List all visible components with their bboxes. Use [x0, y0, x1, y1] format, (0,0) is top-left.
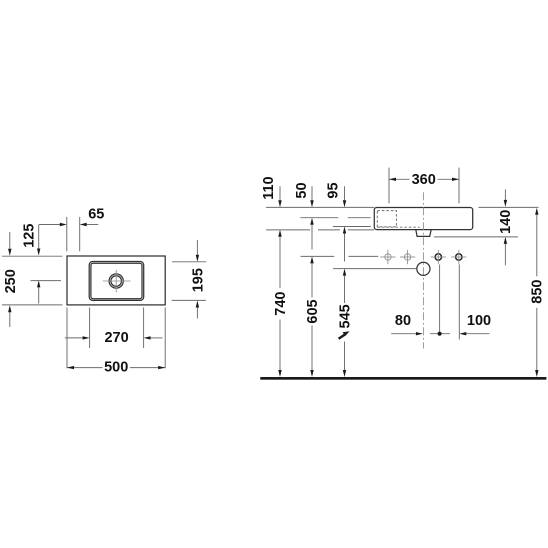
95 level line [333, 226, 371, 228]
line from fixing hole to 80/100 dim (right) [458, 265, 460, 340]
front drain outlet trapezoid [416, 230, 431, 237]
dim 500 (plan bottom) [67, 308, 165, 376]
dim 95 [326, 182, 347, 207]
50 level line [300, 217, 370, 219]
drain circle [417, 262, 430, 275]
dim 50 [294, 182, 314, 207]
605 level line [301, 255, 379, 257]
plan view basin rim outer [89, 262, 144, 301]
svg-text:500: 500 [104, 359, 128, 375]
plan view outer body rect 500x250 [67, 256, 165, 305]
svg-text:125: 125 [21, 224, 37, 248]
ground line [260, 377, 546, 380]
svg-text:195: 195 [190, 268, 206, 292]
dim 195 (plan right) [172, 240, 207, 319]
fixing hole 2 (light) [400, 250, 415, 264]
fixing hole 1 (light) [380, 250, 395, 264]
dim 250 (plan left) [2, 232, 63, 327]
dim 125 (plan left upper) [21, 224, 61, 304]
fixing hole 3 (bold) [431, 250, 446, 264]
svg-text:850: 850 [530, 279, 546, 303]
545 level line [333, 268, 417, 270]
top level line y=207.5 [266, 206, 374, 208]
svg-text:110: 110 [261, 176, 277, 199]
svg-text:95: 95 [326, 182, 342, 198]
svg-text:65: 65 [88, 207, 104, 223]
dim 605 (shares stem with 50 bottom arrow) [305, 218, 321, 377]
svg-text:605: 605 [305, 299, 321, 323]
svg-text:360: 360 [412, 172, 436, 188]
dim 80 (bottom) [391, 313, 423, 335]
plan view basin rim inner [91, 263, 142, 299]
front view hidden bowl bottom (dashed) [377, 226, 419, 228]
plan drain hole [103, 270, 131, 292]
110 level line (basin bottom extension) [266, 229, 374, 231]
dim 65 (plan top) [39, 207, 104, 252]
svg-text:50: 50 [294, 182, 310, 198]
dim 100 (bottom) [459, 313, 491, 335]
vertical centerline through drain [422, 192, 424, 348]
svg-text:740: 740 [273, 291, 289, 315]
svg-text:80: 80 [395, 313, 411, 329]
dim 545 (shares stem with 95 bottom arrow) [337, 227, 353, 378]
front view hidden overflow box (dashed) [377, 211, 396, 227]
dim 360 (front top) [389, 168, 459, 204]
dim 110 [261, 176, 282, 207]
dim 270 (plan bottom) [65, 308, 163, 349]
dim 140 (front right) [498, 189, 514, 265]
junction dot between 80 and 100 [430, 332, 450, 336]
svg-text:545: 545 [337, 304, 353, 328]
dim 850 (far right) [530, 208, 546, 377]
top level line right segment [479, 206, 539, 208]
svg-text:140: 140 [498, 210, 514, 234]
fixing hole 4 (bold) [451, 250, 466, 264]
svg-text:270: 270 [104, 330, 128, 346]
svg-text:100: 100 [467, 313, 491, 329]
dim 740 (shares stem with 110 bottom arrow) [273, 230, 289, 377]
line from fixing hole to 80/100 dim (left) [439, 265, 441, 332]
front view body [374, 208, 472, 230]
140 level line [434, 236, 518, 238]
545 small leader arrow [339, 331, 350, 339]
svg-text:250: 250 [3, 269, 19, 293]
